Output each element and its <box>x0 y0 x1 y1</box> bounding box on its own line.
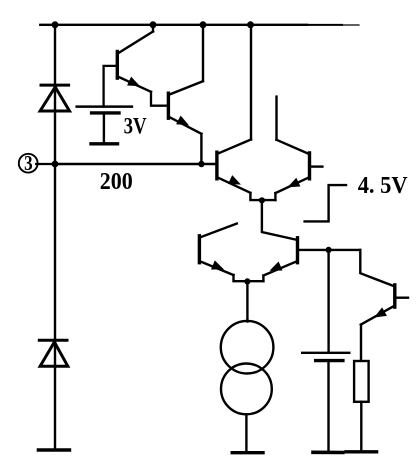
wire Q7 collector to Q6 base node <box>360 250 395 287</box>
wire node3 to rail <box>36 163 55 165</box>
wire Q7 emitter to resistor <box>360 325 362 361</box>
wire Q6 emitter to common node <box>262 276 264 282</box>
wire Q6 base line <box>298 249 361 251</box>
transistor Q5 <box>199 224 236 275</box>
wire Q4 base stub <box>310 165 323 167</box>
battery VB <box>302 353 349 453</box>
svg-text:4. 5V: 4. 5V <box>358 173 409 199</box>
wire Q2 collector to rail <box>202 25 204 81</box>
wire middle common emitter down to Q6 collector <box>262 200 298 240</box>
wire Q3 emitter to common node <box>250 193 275 200</box>
resistor R1 <box>354 361 369 402</box>
svg-text:200: 200 <box>100 168 133 195</box>
transistor Q7 <box>361 285 408 325</box>
wire resistor bottom <box>360 402 362 453</box>
current source I1 <box>221 321 274 374</box>
node 3 terminal circle <box>19 151 38 175</box>
wire Q2 emitter down to 200 net <box>200 134 202 164</box>
terminal bar resistor bottom <box>346 450 377 453</box>
node top-left junction <box>52 21 59 28</box>
transistor Q1 <box>117 25 153 92</box>
svg-text:3V: 3V <box>124 114 147 139</box>
battery 3V <box>77 107 132 144</box>
transistor Q6 <box>263 238 297 276</box>
node top rail junction 2 <box>150 21 157 28</box>
transistor Q2 <box>168 81 203 134</box>
node junction on rail at 200-wire <box>52 161 59 168</box>
wire Q1 emitter to Q2 base <box>151 92 168 106</box>
wire 200 net <box>55 163 217 165</box>
terminal bar left rail bottom <box>38 448 69 451</box>
wire Q4 emitter to common node <box>274 193 276 200</box>
wire top rail faint right tail <box>307 24 342 26</box>
wire Q4 collector stub up <box>275 97 277 140</box>
wire node to battery VB <box>327 250 329 352</box>
terminal bar current source bottom <box>232 451 263 454</box>
node middle pair common emitter <box>259 197 265 203</box>
transistor Q3 <box>217 140 251 193</box>
node junction Q2 emitter on 200 net <box>198 161 204 167</box>
current source I2 <box>221 364 272 415</box>
wire current source bottom <box>245 414 247 451</box>
transistor Q4 <box>275 140 309 193</box>
wire Q3 collector to rail <box>250 25 252 140</box>
diode D2 <box>39 340 68 366</box>
diode D1 <box>40 85 69 111</box>
node junction on Q6 base line <box>326 247 332 253</box>
wire Q5 emitter to lower common node <box>234 275 264 281</box>
wire Q1 base to battery <box>104 66 118 107</box>
wire left rail vertical <box>54 25 56 450</box>
wire top rail <box>40 24 307 26</box>
wire lower common emitter to current source <box>246 281 248 321</box>
node top rail junction 3 <box>200 21 207 28</box>
node lower pair common emitter <box>244 278 250 284</box>
step source symbol <box>305 185 346 221</box>
node top rail junction 4 <box>247 21 254 28</box>
svg-text:3: 3 <box>24 151 33 175</box>
